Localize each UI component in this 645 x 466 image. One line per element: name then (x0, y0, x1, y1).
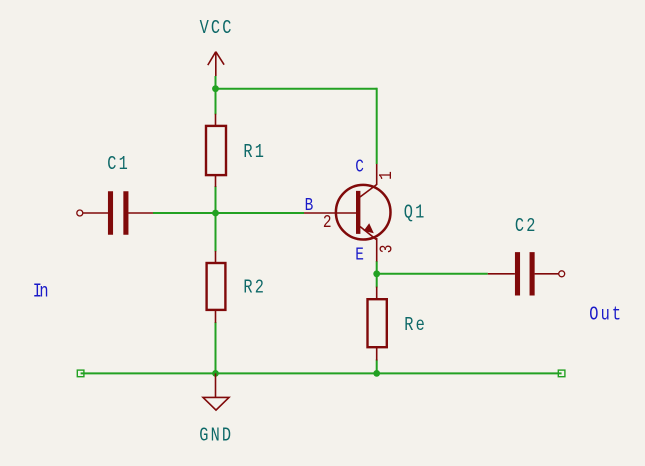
svg-text:E: E (355, 244, 364, 265)
svg-text:R1: R1 (243, 141, 266, 163)
svg-text:3: 3 (376, 245, 397, 254)
svg-text:Out: Out (589, 304, 623, 326)
svg-text:C1: C1 (107, 153, 130, 175)
svg-text:GND: GND (199, 425, 233, 447)
svg-text:Q1: Q1 (404, 202, 427, 224)
svg-text:R2: R2 (243, 277, 266, 299)
svg-text:Re: Re (404, 314, 427, 336)
svg-text:1: 1 (375, 171, 396, 180)
svg-text:2: 2 (323, 211, 332, 232)
svg-text:In: In (33, 281, 47, 303)
svg-text:B: B (305, 194, 314, 215)
svg-text:VCC: VCC (200, 17, 234, 39)
svg-text:C: C (355, 156, 364, 177)
svg-text:C2: C2 (515, 215, 538, 237)
